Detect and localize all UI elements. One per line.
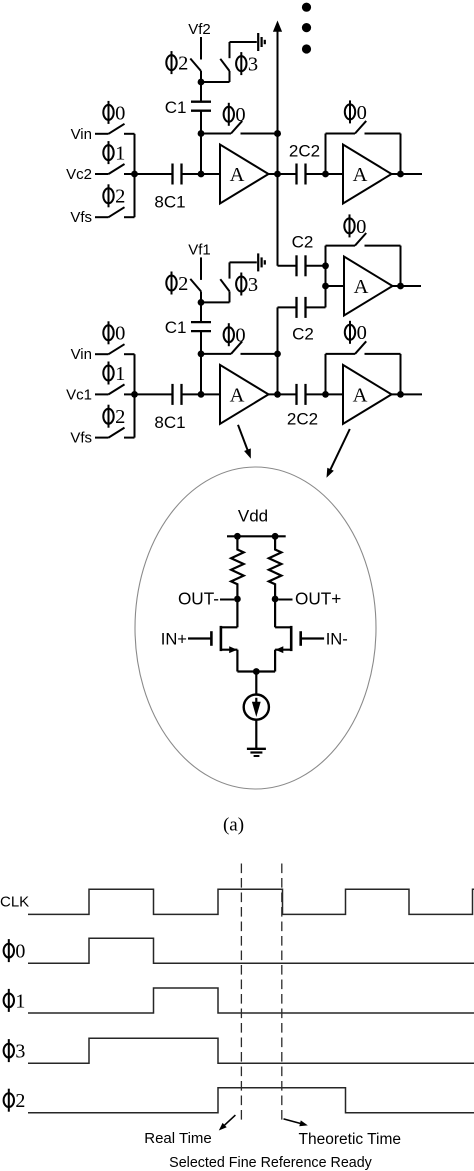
wire C1 to summing node <box>200 331 202 394</box>
svg-text:8C1: 8C1 <box>154 193 185 212</box>
node rail/feedback junction <box>274 130 281 137</box>
switch phi0 (amp2 feedback, stage 2) <box>355 341 366 354</box>
svg-text:Vfs: Vfs <box>70 430 92 447</box>
wire amp2 feedback loop (stage 2) <box>325 354 327 395</box>
wire C2 upper to mid-amp input <box>306 265 326 267</box>
switch phi0 (mid-amp feedback) <box>355 233 366 246</box>
node Vdd right <box>272 533 279 540</box>
capacitor C1 (stage 2) <box>200 302 202 322</box>
wire C2 lower to mid-amp column <box>306 306 326 308</box>
node C2 upper junction <box>322 262 329 269</box>
label phi3 (timing) <box>4 1039 26 1062</box>
label phi0 (Vin input, stage 1) <box>103 101 125 124</box>
wire stage2 output rail <box>277 307 279 394</box>
capacitor 2C2 (stage 2) <box>295 384 297 405</box>
waveform phi3 <box>28 1038 474 1063</box>
switch phi2 (Vf1 reset, stage 2) <box>190 279 201 292</box>
svg-text:Vc2: Vc2 <box>66 166 92 183</box>
transistor M2 (right, IN-) <box>275 626 291 628</box>
svg-text:(a): (a) <box>223 814 244 835</box>
node Vf1 switch junction <box>198 299 205 306</box>
svg-text:2: 2 <box>178 53 188 75</box>
node amp1 output feedback (stage 1) <box>274 130 281 137</box>
node amp1 output (stage 1) <box>274 171 281 178</box>
svg-text:0: 0 <box>235 104 245 126</box>
node summing junction (stage 1) <box>198 171 205 178</box>
svg-text:0: 0 <box>357 322 367 344</box>
svg-text:2C2: 2C2 <box>289 141 320 160</box>
svg-text:A: A <box>230 384 245 406</box>
svg-text:0: 0 <box>357 102 367 124</box>
op-amp A (amp1, stage 2) <box>220 365 269 424</box>
node Vf2 switch junction <box>198 79 205 86</box>
svg-text:OUT-: OUT- <box>178 589 219 609</box>
wire current source to ground <box>255 720 257 749</box>
ground (tail current source) <box>247 748 266 750</box>
wire amp1 output (stage 1) <box>269 173 297 175</box>
node tail junction <box>253 668 260 675</box>
node amp1 output feedback (stage 2) <box>274 351 281 358</box>
capacitor C1 (stage 1) <box>200 82 202 102</box>
wire Vf2 stub <box>200 37 202 60</box>
ground (phi3 switch, stage 1) <box>257 33 259 51</box>
wire OUT+ to M2 drain <box>274 599 276 627</box>
wire amp1 output (stage 2) <box>269 393 297 395</box>
wire amp2 output (stage 1) <box>392 173 423 175</box>
svg-text:A: A <box>353 164 368 186</box>
wire 8C1 to amp1 (stage 1) <box>182 173 221 175</box>
label phi2 (Vfs input, stage 2) <box>103 405 125 428</box>
label phi2 (Vfs input, stage 1) <box>103 184 125 207</box>
wire input bus (stage 2) <box>134 354 136 437</box>
waveform phi2 <box>28 1088 474 1113</box>
op-amp A (amp2, stage 2) <box>343 365 392 424</box>
detail ellipse outline <box>135 467 376 789</box>
wire bus to 8C1 <box>135 173 173 175</box>
svg-text:CLK: CLK <box>0 894 29 911</box>
label phi0 (amp1 feedback, stage 1) <box>224 103 246 126</box>
svg-text:3: 3 <box>248 274 258 296</box>
svg-text:0: 0 <box>115 323 125 345</box>
wire input bus (stage 1) <box>134 134 136 217</box>
wire OUT- to M1 drain <box>236 599 238 627</box>
waveform phi1 <box>28 988 474 1013</box>
wire bus to 8C1 <box>135 393 173 395</box>
wire mid-amp input to amp <box>326 285 345 287</box>
arrow amp2 stage2 to detail <box>330 429 350 471</box>
node OUT+ <box>272 596 279 603</box>
label phi2 (switch Vf2, stage 1) <box>166 51 188 74</box>
svg-text:A: A <box>353 384 368 406</box>
wire output rail with up arrow <box>277 30 279 266</box>
switch phi2 (Vfs input, stage 1) <box>95 216 109 218</box>
switch phi3 (stage 2) <box>229 291 231 302</box>
svg-text:1: 1 <box>115 363 125 385</box>
switch phi3 (stage 1) <box>229 71 231 82</box>
svg-text:2C2: 2C2 <box>287 409 318 428</box>
svg-text:IN-: IN- <box>326 629 348 648</box>
svg-text:Real Time: Real Time <box>144 1130 212 1147</box>
svg-text:0: 0 <box>15 941 25 963</box>
label phi1 (timing) <box>4 989 26 1012</box>
switch phi0 (Vin input, stage 1) <box>95 133 109 135</box>
dashed line real time <box>240 864 242 1125</box>
node amp2 output (stage 1) <box>397 171 404 178</box>
arrow to Theoretic Time label <box>284 1119 302 1124</box>
node amp input feedback tap (stage 2) <box>198 351 205 358</box>
svg-text:2: 2 <box>115 186 125 208</box>
current source I1 <box>244 695 269 720</box>
label phi0 (amp1 feedback, stage 2) <box>224 323 246 346</box>
label phi0 (Vin input, stage 2) <box>103 321 125 344</box>
resistor R2 (right load) <box>269 536 282 599</box>
svg-text:Vc1: Vc1 <box>66 386 92 403</box>
svg-text:C2: C2 <box>292 232 314 251</box>
dashed line theoretic time <box>281 864 283 1125</box>
switch phi0 (amp1 feedback, stage 1) <box>201 133 231 135</box>
node OUT- <box>234 596 241 603</box>
svg-text:1: 1 <box>15 990 25 1012</box>
svg-text:IN+: IN+ <box>161 629 187 648</box>
wire mid-amp output <box>393 285 422 287</box>
svg-text:0: 0 <box>356 216 366 238</box>
wire 8C1 to amp1 (stage 2) <box>182 393 221 395</box>
svg-text:Selected Fine Reference Ready: Selected Fine Reference Ready <box>169 1155 373 1171</box>
label phi2 (switch Vf1, stage 2) <box>166 272 188 295</box>
label phi0 (amp2 feedback, stage 2) <box>345 321 367 344</box>
label phi0 (mid-amp feedback) <box>344 214 366 237</box>
svg-text:2: 2 <box>15 1090 25 1112</box>
wire rail corner to C2 upper <box>278 265 297 267</box>
svg-text:Vin: Vin <box>71 346 92 363</box>
waveform CLK <box>28 889 474 914</box>
wire mid-amp input column <box>325 246 327 308</box>
switch phi1 (Vc2 input, stage 1) <box>95 173 109 175</box>
wire junction to phi3 switch <box>201 81 230 83</box>
svg-text:Vdd: Vdd <box>238 506 268 525</box>
ground (phi3 switch, stage 2) <box>257 253 259 271</box>
label phi0 (timing) <box>4 939 26 962</box>
svg-text:C2: C2 <box>292 325 314 344</box>
arrow to Real Time label <box>224 1115 236 1126</box>
wire C1 to summing node <box>200 111 202 174</box>
capacitor C2 (upper) <box>295 255 297 276</box>
capacitor 2C2 (stage 1) <box>295 164 297 185</box>
svg-text:2: 2 <box>178 273 188 295</box>
switch phi0 (Vin input, stage 2) <box>95 353 109 355</box>
svg-text:OUT+: OUT+ <box>295 589 341 609</box>
label phi1 (Vc1 input, stage 2) <box>103 362 125 385</box>
node amp2 input (stage 2) <box>322 391 329 398</box>
svg-text:2: 2 <box>115 406 125 428</box>
svg-text:0: 0 <box>115 102 125 124</box>
label phi3 (stage 1) <box>236 52 258 75</box>
transistor M1 (left, IN+) <box>221 626 238 628</box>
capacitor 8C1 (stage 1) <box>171 164 173 185</box>
node mid-amp input <box>322 283 329 290</box>
resistor R1 (left load) <box>231 536 244 599</box>
wire amp2 output (stage 2) <box>392 393 423 395</box>
wire amp2 feedback loop (stage 1) <box>325 134 327 175</box>
svg-text:Vf2: Vf2 <box>188 21 211 38</box>
switch phi0 (amp1 feedback, stage 2) <box>201 353 231 355</box>
svg-text:8C1: 8C1 <box>154 413 185 432</box>
waveform phi0 <box>28 938 474 963</box>
label phi3 (stage 2) <box>236 273 258 296</box>
capacitor C2 (lower) <box>295 297 297 318</box>
svg-text:Vin: Vin <box>71 126 92 143</box>
wire tail to current source <box>255 672 257 695</box>
switch phi2 (Vf2 reset, stage 1) <box>190 59 201 72</box>
arrow amp1 stage2 to detail <box>238 425 248 451</box>
switch phi1 (Vc1 input, stage 2) <box>95 393 109 395</box>
label phi1 (Vc2 input, stage 1) <box>103 141 125 164</box>
svg-text:A: A <box>354 276 369 298</box>
capacitor 8C1 (stage 2) <box>171 384 173 405</box>
svg-text:Theoretic Time: Theoretic Time <box>299 1131 402 1148</box>
node Vdd left <box>234 533 241 540</box>
svg-text:Vfs: Vfs <box>70 209 92 226</box>
wire junction to phi3 switch <box>201 301 230 303</box>
wire Vf1 stub <box>200 257 202 280</box>
wire 2C2 to amp2 (stage 2) <box>306 393 344 395</box>
node amp2 output (stage 2) <box>397 391 404 398</box>
node mid-amp output <box>397 283 404 290</box>
svg-text:Vf1: Vf1 <box>188 241 211 258</box>
svg-text:3: 3 <box>248 54 258 76</box>
wire mid-amp feedback loop <box>326 245 356 247</box>
svg-text:3: 3 <box>15 1041 25 1063</box>
op-amp A (mid averaging amp) <box>344 257 393 316</box>
svg-text:A: A <box>230 164 245 186</box>
label phi0 (amp2 feedback, stage 1) <box>345 100 367 123</box>
node amp1 output (stage 2) <box>274 391 281 398</box>
wire Vdd rail <box>227 535 286 537</box>
label phi2 (timing) <box>4 1089 26 1112</box>
node input bus junction (stage 1) <box>131 171 138 178</box>
svg-text:1: 1 <box>115 143 125 165</box>
wire 2C2 to amp2 (stage 1) <box>306 173 344 175</box>
wire stage2 output to C2 lower <box>278 306 297 308</box>
switch phi2 (Vfs input, stage 2) <box>95 437 109 439</box>
switch phi0 (amp2 feedback, stage 1) <box>355 121 366 134</box>
op-amp A (amp1, stage 1) <box>220 145 269 204</box>
node summing junction (stage 2) <box>198 391 205 398</box>
node input bus junction (stage 2) <box>131 391 138 398</box>
node amp input feedback tap (stage 1) <box>198 130 205 137</box>
node amp2 input (stage 1) <box>322 171 329 178</box>
svg-text:C1: C1 <box>165 318 187 337</box>
svg-text:C1: C1 <box>165 98 187 117</box>
continuation ellipsis dots <box>302 3 311 12</box>
wire common source tail <box>237 670 275 672</box>
op-amp A (amp2, stage 1) <box>343 145 392 204</box>
svg-text:0: 0 <box>235 325 245 347</box>
